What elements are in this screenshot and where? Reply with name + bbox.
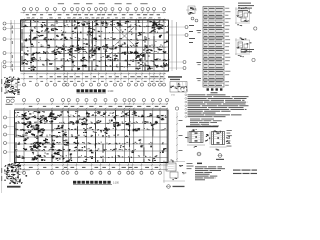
svg-text:1:100: 1:100 (108, 91, 114, 93)
svg-text:1:100: 1:100 (113, 183, 119, 185)
